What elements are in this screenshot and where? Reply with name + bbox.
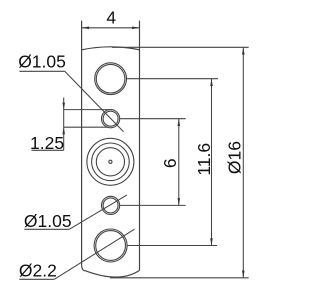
- svg-text:4: 4: [106, 8, 116, 28]
- arrow 6 bottom: [178, 198, 181, 205]
- leader O1.05 top shoulder: [19, 70, 64, 72]
- ext line O16 top: [112, 46, 249, 48]
- dim 1.25 shoulder: [32, 149, 64, 151]
- dim 1.25 vertical line: [63, 98, 65, 151]
- svg-text:6: 6: [160, 158, 180, 168]
- arrow 4 left: [82, 27, 89, 30]
- dim line 11.6: [211, 79, 213, 246]
- ext line 6 bottom: [120, 204, 186, 206]
- arrow 6 top: [178, 119, 181, 126]
- leader O1.05 top diagonal: [65, 71, 124, 131]
- leader O2.2 shoulder: [19, 278, 54, 280]
- svg-text:1.25: 1.25: [30, 133, 64, 153]
- svg-text:11.6: 11.6: [194, 143, 214, 176]
- ext line 6 top: [120, 118, 186, 120]
- dim line 4: [82, 27, 140, 29]
- hole C1 big top outer: [95, 63, 127, 95]
- ext line 11.6 top: [127, 78, 218, 80]
- leader O2.2 diagonal: [54, 229, 134, 279]
- dim 1.25 ext top: [64, 109, 109, 111]
- boss C3 inner: [96, 148, 124, 176]
- svg-text:Ø16: Ø16: [224, 141, 244, 174]
- hole C1 big top inner: [96, 64, 125, 93]
- arrow 11.6 bottom: [210, 238, 213, 245]
- part top arc: [82, 47, 140, 50]
- boss C3 center dot: [109, 160, 112, 163]
- hole C2 small upper inner: [103, 111, 118, 126]
- dim 1.25 ext bottom: [64, 126, 109, 128]
- leader O1.05 bottom shoulder: [24, 228, 69, 230]
- hole C5 big bottom inner: [96, 231, 126, 261]
- part left edge + 4-dim extension: [81, 21, 83, 266]
- svg-text:Ø1.05: Ø1.05: [24, 211, 72, 231]
- dim line 6: [178, 119, 180, 206]
- ext line 11.6 bottom: [128, 245, 218, 247]
- hole C4 small lower inner: [103, 198, 118, 213]
- dim line O16: [242, 47, 244, 277]
- ext line O16 bottom: [110, 277, 249, 279]
- boss C3 middle ring: [92, 143, 130, 181]
- arrow 11.6 top: [210, 79, 213, 86]
- svg-text:Ø1.05: Ø1.05: [18, 52, 66, 72]
- arrow 1.25 top (points down): [62, 103, 65, 110]
- hole C4 small lower outer: [102, 196, 120, 214]
- part right edge + 4-dim extension: [139, 21, 141, 271]
- arrow 4 right: [132, 27, 139, 30]
- part bottom arc with rounded left corner: [82, 266, 140, 278]
- arrow O16 top: [242, 47, 245, 54]
- arrow O16 bottom: [242, 271, 245, 278]
- boss C3 middle outer: [87, 138, 134, 185]
- leader O1.05 bottom diagonal: [69, 195, 127, 229]
- hole C5 big bottom outer: [94, 229, 127, 262]
- hole C2 small upper outer: [102, 110, 120, 128]
- arrow 1.25 bottom (points up): [62, 127, 65, 134]
- svg-text:Ø2.2: Ø2.2: [19, 260, 57, 280]
